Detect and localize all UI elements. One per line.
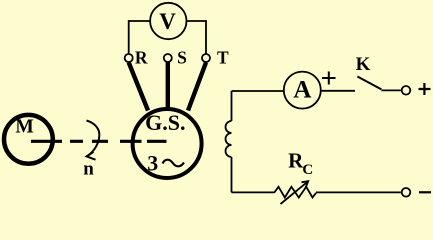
svg-text:V: V	[159, 9, 176, 34]
svg-text:S: S	[177, 47, 187, 67]
stator lead R	[129, 63, 148, 111]
rotation arrow	[87, 121, 100, 157]
wire: bottom bus to rheostat	[232, 191, 275, 193]
polarity + at ammeter	[322, 72, 336, 85]
rheostat R_C	[274, 187, 316, 198]
rheostat arrow	[281, 182, 308, 204]
svg-text:A: A	[293, 76, 311, 103]
wire: top bus to ammeter	[232, 90, 284, 92]
inductor coil	[226, 121, 232, 157]
switch K blade	[357, 77, 381, 90]
output terminal -	[402, 188, 411, 197]
svg-text:M: M	[15, 117, 33, 138]
wire: ammeter to switch	[322, 90, 355, 92]
wire V to terminal R	[129, 21, 150, 54]
wire: coil branch vertical top	[231, 91, 233, 121]
wire: coil branch vertical bottom	[231, 157, 233, 192]
voltmeter V	[150, 3, 186, 39]
stator lead S	[166, 63, 170, 109]
svg-text:R: R	[135, 47, 148, 67]
svg-text:G.S.: G.S.	[145, 110, 185, 135]
svg-text:n: n	[83, 159, 94, 180]
motor M	[4, 115, 53, 164]
generator G.S.	[133, 109, 202, 178]
terminal S	[164, 54, 172, 62]
terminal T	[202, 54, 210, 62]
polarity - at output	[419, 191, 431, 193]
wire V to terminal T	[187, 21, 206, 54]
svg-text:C: C	[302, 162, 313, 178]
wire: switch to output terminal	[381, 89, 400, 91]
svg-text:K: K	[356, 54, 371, 75]
stator lead T	[188, 63, 206, 111]
polarity + at output	[419, 83, 431, 95]
shaft (dashed coupling)	[31, 140, 167, 143]
wire: rheostat to output terminal	[316, 191, 401, 193]
svg-text:T: T	[217, 47, 229, 67]
ammeter A	[284, 72, 321, 109]
output terminal +	[402, 86, 411, 95]
terminal R	[125, 54, 133, 62]
svg-text:3: 3	[147, 150, 158, 175]
